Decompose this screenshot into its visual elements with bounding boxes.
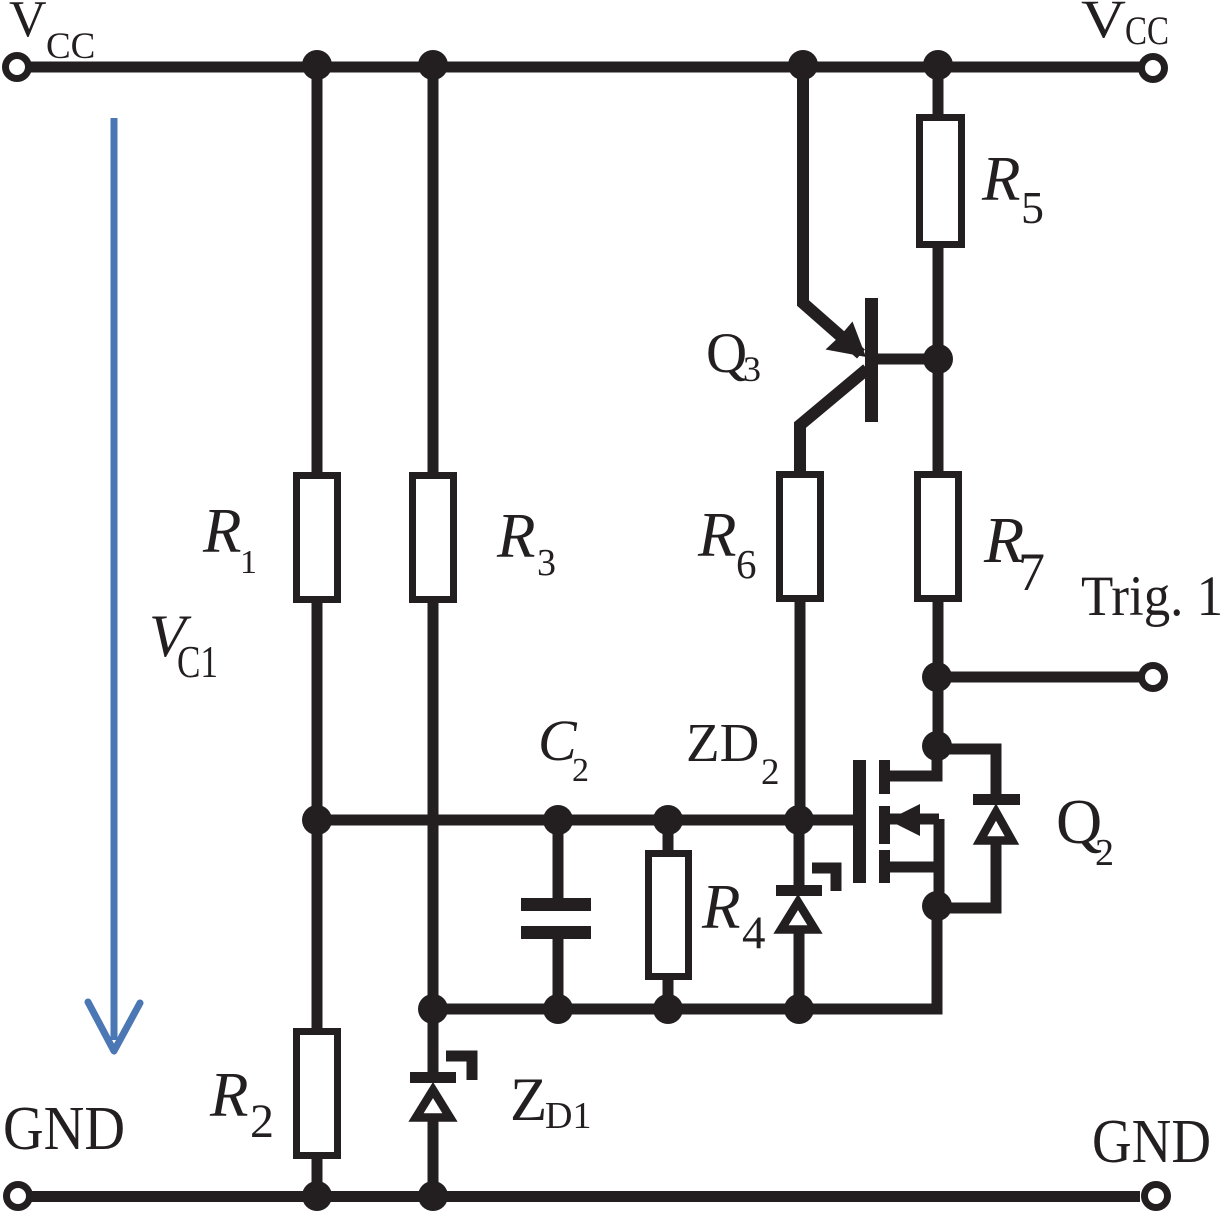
wire ZD2 top lead [794, 820, 805, 889]
label Trig 1 [1081, 565, 1223, 628]
capacitor C2 [521, 898, 591, 939]
svg-text:Trig. 1: Trig. 1 [1081, 565, 1223, 628]
wire R4 bottom lead [663, 980, 674, 1009]
label VC1 [149, 603, 218, 687]
resistor R2 [297, 1032, 338, 1156]
label R5 [981, 144, 1044, 233]
junction GND rail / ZD1 [418, 1181, 448, 1211]
arrow VC1 [88, 118, 140, 1051]
wire R3 bottom lead to ZD1 [428, 603, 439, 1076]
wire Q2 drain lead [888, 746, 937, 776]
svg-text:R: R [496, 501, 535, 571]
terminal GND right [1145, 1185, 1168, 1208]
wire node A bus [317, 815, 853, 826]
svg-text:7: 7 [1018, 542, 1045, 602]
wire ZD1 bottom lead [428, 1120, 439, 1196]
junction node B / C2 [543, 994, 573, 1024]
zener diode ZD1 [410, 1056, 472, 1118]
wire VCC top rail [30, 62, 1140, 73]
resistor R3 [413, 476, 454, 600]
wire R2 bottom lead [312, 1159, 323, 1196]
junction GND rail / R2 [302, 1181, 332, 1211]
wire C2 bottom lead [553, 938, 564, 1009]
svg-text:CC: CC [1125, 8, 1169, 53]
zener diode ZD2 [776, 868, 836, 930]
label GND left [3, 1095, 125, 1163]
junction VCC rail / R5 [923, 50, 953, 80]
junction VCC rail / R1 [302, 50, 332, 80]
svg-text:4: 4 [742, 907, 766, 959]
wire C2 top lead [553, 820, 564, 899]
transistor Q3 [826, 298, 938, 422]
wire R6 bottom lead [795, 602, 806, 820]
terminal GND left [7, 1185, 30, 1208]
svg-text:2: 2 [1095, 832, 1114, 874]
junction node B / R3 ZD1 [418, 994, 448, 1024]
svg-text:GND: GND [1092, 1108, 1211, 1176]
junction node A / C2 [543, 805, 573, 835]
wire Q3 collector lead [800, 369, 867, 473]
svg-text:R: R [697, 500, 736, 570]
svg-text:6: 6 [736, 541, 757, 587]
label R6 [697, 500, 757, 587]
junction Q3 base / R5 R7 [923, 344, 953, 374]
mosfet Q2 [853, 760, 939, 906]
label R2 [209, 1060, 274, 1148]
terminal Trig 1 [1142, 666, 1165, 689]
svg-text:Z: Z [510, 1067, 547, 1134]
label R4 [701, 872, 766, 959]
junction node A / gate ZD2 R6 [784, 805, 814, 835]
label VCC left [9, 0, 95, 67]
svg-text:V: V [9, 0, 47, 48]
svg-text:R: R [701, 872, 740, 942]
resistor R7 [918, 475, 959, 599]
resistor R1 [297, 476, 338, 600]
wire ZD2 bottom lead [794, 932, 805, 1009]
junction node B / R4 [653, 994, 683, 1024]
label ZD2 [686, 712, 780, 793]
resistor R5 [920, 118, 962, 245]
svg-text:2: 2 [761, 752, 780, 793]
wire Q3 emitter lead [803, 67, 861, 354]
label R7 [983, 504, 1045, 602]
svg-text:3: 3 [537, 542, 556, 584]
svg-text:2: 2 [250, 1095, 274, 1148]
resistor R6 [780, 475, 821, 599]
svg-text:R: R [202, 496, 241, 566]
diode Q2 body diode [937, 749, 1020, 908]
terminal VCC right [1142, 57, 1165, 80]
wire Trig output [937, 672, 1140, 683]
wire R5 top lead [933, 67, 944, 118]
svg-text:D1: D1 [545, 1095, 591, 1137]
label ZD1 [510, 1067, 591, 1137]
label C2 [538, 708, 589, 789]
svg-text:1: 1 [240, 544, 257, 581]
junction Q2 drain [922, 731, 952, 761]
label Q2 [1056, 786, 1114, 874]
svg-text:V: V [1081, 0, 1126, 49]
junction Q2 source [922, 891, 952, 921]
wire R5 to R7 [933, 248, 944, 475]
svg-text:5: 5 [1021, 182, 1044, 233]
svg-text:Q: Q [706, 322, 747, 385]
svg-text:ZD: ZD [686, 712, 759, 773]
label GND right [1092, 1108, 1211, 1176]
label VCC right [1081, 0, 1169, 53]
svg-text:3: 3 [743, 349, 761, 389]
svg-text:R: R [981, 144, 1020, 214]
wire R3 top lead [428, 67, 439, 476]
svg-text:CC: CC [46, 26, 95, 67]
wire R4 top lead [663, 820, 674, 854]
junction node A / R1 R2 [302, 805, 332, 835]
wire R2 top lead [312, 820, 323, 1032]
junction node B / ZD2 [784, 994, 814, 1024]
svg-text:2: 2 [572, 752, 589, 789]
wire R1 bottom lead to node A [312, 603, 323, 825]
junction VCC rail / R3 [418, 50, 448, 80]
wire R7 bottom lead [933, 602, 944, 750]
label R3 [496, 501, 556, 584]
wire R1 top lead [312, 67, 323, 476]
resistor R4 [649, 854, 689, 977]
label Q3 [706, 322, 761, 389]
junction node A / R4 [653, 805, 683, 835]
svg-text:C1: C1 [177, 637, 218, 687]
junction Trig node [922, 662, 952, 692]
terminal VCC left [6, 56, 29, 79]
junction VCC rail / Q3 emitter [788, 50, 818, 80]
wire node B bus [433, 903, 937, 1009]
svg-text:GND: GND [3, 1095, 125, 1163]
label R1 [202, 496, 257, 581]
svg-text:R: R [209, 1060, 248, 1130]
wire GND bottom rail [31, 1191, 1140, 1202]
